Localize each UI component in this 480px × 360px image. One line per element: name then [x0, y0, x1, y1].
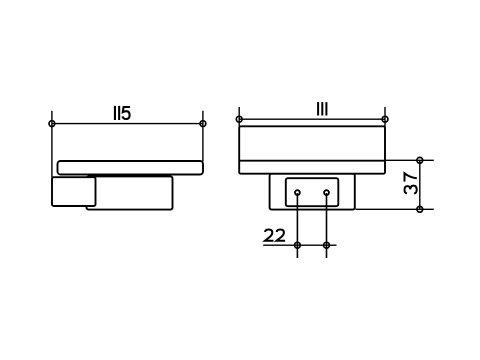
wire: right screw extension: [326, 193, 328, 258]
screw hole right: [324, 190, 329, 195]
wire: dimension line 37 (vertical): [419, 160, 421, 209]
node: left dim circle 22: [295, 242, 301, 248]
wire: left screw extension: [296, 193, 298, 258]
node: left dim circle: [236, 116, 242, 122]
node: top dim circle 37: [417, 157, 423, 163]
node: left dim circle: [49, 121, 55, 127]
wire: top extension for 37: [385, 159, 434, 161]
tray rim line: [239, 160, 385, 162]
label 111: [317, 102, 327, 115]
node: right dim circle: [382, 116, 388, 122]
node: right dim circle 22: [324, 242, 330, 248]
wire: bottom extension for 37: [356, 208, 434, 210]
label 115: [114, 106, 120, 120]
wire: dimension line 115: [52, 123, 203, 125]
node: bottom dim circle 37: [417, 206, 423, 212]
wall plate (side): [52, 177, 96, 206]
tray (side): [58, 161, 204, 175]
screw hole left: [295, 190, 300, 195]
wire: left extension tick: [51, 111, 53, 178]
wire: dimension line 22: [263, 244, 336, 246]
holder body (side): [87, 176, 173, 209]
wall plate (front): [286, 178, 339, 206]
wire: dimension line 111: [239, 118, 385, 120]
tray (front): [239, 126, 385, 173]
wire: left extension tick: [238, 107, 240, 127]
wire: right extension tick: [384, 107, 386, 127]
node: right dim circle: [200, 121, 206, 127]
wire: right extension tick: [202, 111, 204, 162]
bracket outer (front): [270, 174, 355, 210]
label 37 (rotated): [405, 173, 417, 193]
label 22: [265, 230, 285, 241]
